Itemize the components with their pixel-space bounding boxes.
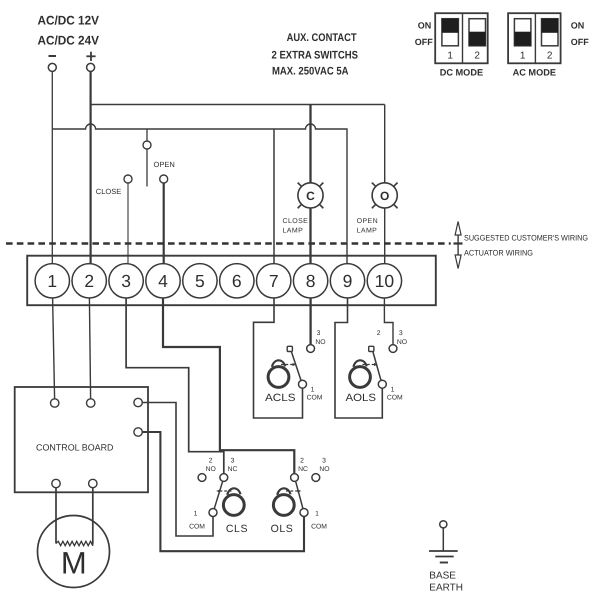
svg-text:7: 7 [269, 271, 279, 291]
svg-text:2: 2 [84, 271, 94, 291]
svg-text:2: 2 [377, 330, 381, 337]
svg-text:CLOSE: CLOSE [283, 218, 309, 225]
svg-text:ACTUATOR WIRING: ACTUATOR WIRING [464, 248, 533, 257]
svg-text:9: 9 [343, 271, 353, 291]
svg-text:SUGGESTED CUSTOMER'S WIRING: SUGGESTED CUSTOMER'S WIRING [464, 234, 588, 243]
svg-text:COM: COM [307, 395, 323, 402]
svg-text:1: 1 [391, 387, 395, 394]
svg-text:8: 8 [306, 271, 316, 291]
svg-text:6: 6 [232, 271, 242, 291]
svg-text:1: 1 [311, 387, 315, 394]
svg-text:ON: ON [418, 20, 432, 30]
svg-text:OFF: OFF [415, 37, 433, 47]
svg-text:10: 10 [375, 271, 395, 291]
svg-text:NO: NO [206, 466, 216, 473]
svg-text:LAMP: LAMP [283, 228, 304, 235]
svg-text:CONTROL BOARD: CONTROL BOARD [36, 443, 114, 453]
svg-text:5: 5 [195, 271, 205, 291]
svg-text:LAMP: LAMP [357, 228, 378, 235]
svg-text:COM: COM [387, 395, 403, 402]
svg-text:AOLS: AOLS [346, 392, 377, 404]
svg-text:2: 2 [300, 458, 304, 465]
svg-text:1: 1 [520, 51, 526, 62]
svg-text:MAX. 250VAC 5A: MAX. 250VAC 5A [272, 66, 349, 78]
svg-text:CLOSE: CLOSE [96, 187, 121, 196]
svg-text:3: 3 [399, 330, 403, 337]
svg-text:2: 2 [474, 51, 480, 62]
svg-text:AC/DC 12V: AC/DC 12V [38, 14, 100, 28]
svg-text:CLS: CLS [226, 523, 248, 535]
svg-text:O: O [380, 189, 389, 203]
svg-text:OLS: OLS [271, 523, 294, 535]
svg-text:BASE: BASE [429, 571, 456, 582]
svg-text:C: C [306, 189, 315, 203]
svg-text:1: 1 [447, 51, 453, 62]
svg-text:EARTH: EARTH [429, 583, 463, 594]
svg-text:3: 3 [317, 330, 321, 337]
svg-text:AC/DC 24V: AC/DC 24V [38, 34, 100, 48]
svg-text:OPEN: OPEN [357, 218, 378, 225]
svg-text:NO: NO [315, 339, 325, 346]
svg-text:1: 1 [47, 271, 57, 291]
svg-text:1: 1 [315, 511, 319, 518]
svg-text:AC MODE: AC MODE [513, 67, 556, 77]
svg-text:COM: COM [311, 524, 327, 531]
svg-text:1: 1 [194, 511, 198, 518]
svg-text:4: 4 [158, 271, 168, 291]
svg-text:COM: COM [189, 524, 205, 531]
svg-text:OPEN: OPEN [154, 160, 175, 169]
svg-text:NC: NC [298, 466, 308, 473]
svg-text:2 EXTRA SWITCHS: 2 EXTRA SWITCHS [272, 50, 359, 62]
svg-text:DC MODE: DC MODE [440, 67, 483, 77]
svg-text:2: 2 [547, 51, 553, 62]
svg-text:NC: NC [228, 466, 238, 473]
svg-text:ON: ON [571, 20, 585, 30]
svg-text:NO: NO [397, 339, 407, 346]
svg-text:ACLS: ACLS [265, 392, 296, 404]
svg-text:AUX. CONTACT: AUX. CONTACT [287, 32, 357, 44]
svg-text:2: 2 [209, 458, 213, 465]
svg-text:3: 3 [121, 271, 131, 291]
svg-text:NO: NO [319, 466, 329, 473]
svg-text:3: 3 [322, 458, 326, 465]
svg-text:M: M [61, 546, 87, 581]
svg-text:3: 3 [231, 458, 235, 465]
svg-text:OFF: OFF [571, 37, 589, 47]
